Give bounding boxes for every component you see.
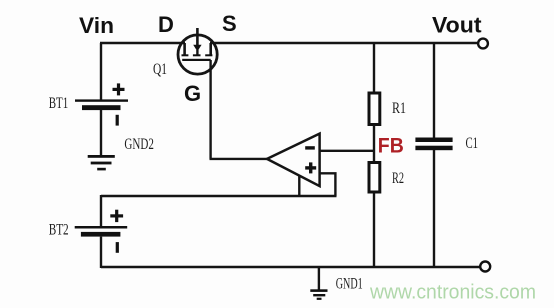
wire R1 branch drop xyxy=(373,43,375,94)
wire BT2 positive rail xyxy=(101,195,337,197)
svg-text:www.cntronics.com: www.cntronics.com xyxy=(369,282,536,304)
wire C1 branch drop xyxy=(433,43,435,138)
wire R2 to bottom rail xyxy=(373,193,375,268)
battery BT1 xyxy=(75,83,128,125)
terminal Vout (open circle) xyxy=(478,39,488,49)
svg-text:GND2: GND2 xyxy=(124,136,153,153)
wire op-amp output to gate lead xyxy=(210,158,268,160)
ground GND1 xyxy=(310,267,327,300)
wire top rail left (Vin to Q1 drain) xyxy=(100,42,185,44)
svg-text:Q1: Q1 xyxy=(153,61,167,78)
svg-text:D: D xyxy=(158,12,174,37)
wire non-inverting input routing xyxy=(320,173,336,196)
svg-text:BT1: BT1 xyxy=(49,95,68,112)
op-amp U1 (triangle pointing left) xyxy=(267,134,320,187)
svg-text:FB: FB xyxy=(378,133,404,157)
wire junction stub to op-amp body xyxy=(298,175,300,196)
svg-text:G: G xyxy=(184,81,201,106)
wire bottom rail xyxy=(101,266,481,268)
svg-text:Vout: Vout xyxy=(432,13,482,38)
svg-text:BT2: BT2 xyxy=(49,222,69,239)
wire inverting input to FB node xyxy=(320,150,374,152)
wire Vin vertical drop to BT1 xyxy=(100,43,102,100)
resistor R1 xyxy=(369,93,380,125)
svg-text:GND1: GND1 xyxy=(336,275,363,292)
wire gate lead down from Q1 xyxy=(209,60,211,159)
transistor Q1 (P-MOSFET in circle) xyxy=(178,28,217,74)
svg-text:Vin: Vin xyxy=(79,13,114,38)
wire top rail right (Q1 source to Vout) xyxy=(210,42,478,44)
terminal bottom right (open circle) xyxy=(480,262,490,272)
battery BT2 xyxy=(75,195,128,268)
wire BT1 to GND2 xyxy=(100,110,102,156)
svg-text:R2: R2 xyxy=(392,170,404,187)
svg-text:S: S xyxy=(222,11,237,36)
capacitor C1 xyxy=(415,138,452,151)
wire C1 to bottom rail xyxy=(433,150,435,267)
svg-text:C1: C1 xyxy=(466,135,479,152)
svg-text:R1: R1 xyxy=(392,100,406,117)
resistor R2 xyxy=(369,163,380,193)
ground GND2 xyxy=(88,155,115,170)
wire R1 to R2 (FB node) xyxy=(373,125,375,163)
